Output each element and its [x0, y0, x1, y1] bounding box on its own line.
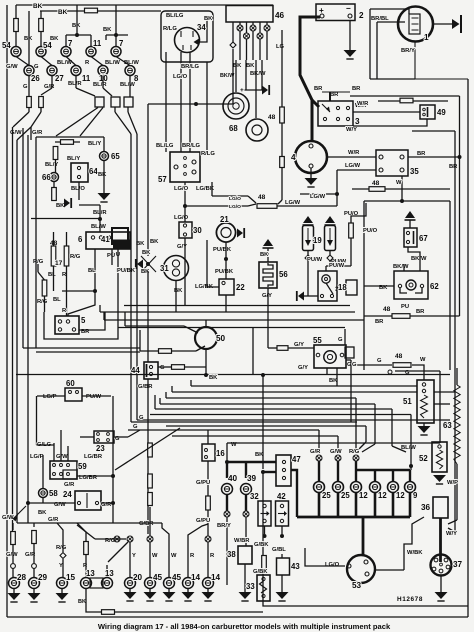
svg-text:48: 48: [258, 194, 266, 201]
svg-text:LG/W: LG/W: [310, 194, 326, 200]
svg-text:BR: BR: [314, 86, 323, 92]
svg-text:+: +: [240, 87, 244, 94]
svg-text:H12678: H12678: [397, 596, 423, 603]
svg-text:W: W: [420, 357, 426, 363]
svg-text:44: 44: [131, 366, 140, 375]
svg-text:68: 68: [229, 124, 238, 133]
svg-text:R/G: R/G: [70, 254, 81, 260]
svg-text:3: 3: [355, 117, 360, 126]
svg-text:PU/W: PU/W: [307, 257, 323, 263]
svg-text:G/Y: G/Y: [298, 365, 308, 371]
svg-text:42: 42: [277, 492, 286, 501]
svg-text:G/PU: G/PU: [196, 480, 210, 486]
svg-text:BR/BL: BR/BL: [371, 16, 389, 22]
svg-text:62: 62: [430, 282, 439, 291]
svg-text:56: 56: [279, 270, 288, 279]
svg-text:R/G: R/G: [37, 299, 48, 305]
svg-text:BK: BK: [209, 375, 218, 381]
svg-text:64: 64: [89, 167, 98, 176]
svg-text:G: G: [160, 365, 165, 371]
svg-text:BK: BK: [246, 63, 255, 69]
svg-text:67: 67: [419, 234, 428, 243]
svg-text:34: 34: [197, 23, 206, 32]
svg-text:G/W: G/W: [2, 515, 14, 521]
svg-text:PU/BK: PU/BK: [117, 268, 136, 274]
svg-text:W/Y: W/Y: [346, 127, 357, 133]
svg-text:24: 24: [63, 490, 72, 499]
svg-text:BK: BK: [33, 3, 43, 10]
svg-text:48: 48: [268, 114, 276, 121]
svg-text:G: G: [139, 415, 144, 421]
svg-text:BK/W: BK/W: [411, 256, 427, 262]
svg-text:G/R: G/R: [310, 449, 321, 455]
svg-text:57: 57: [158, 175, 167, 184]
svg-text:BL/O: BL/O: [71, 186, 85, 192]
svg-text:W: W: [396, 180, 402, 186]
svg-text:W/Y: W/Y: [446, 531, 457, 537]
svg-text:BK: BK: [204, 16, 213, 22]
svg-text:LG/P: LG/P: [30, 454, 44, 460]
svg-text:1: 1: [424, 33, 429, 42]
svg-text:5: 5: [81, 316, 86, 325]
svg-text:7: 7: [119, 39, 123, 48]
svg-text:66: 66: [42, 173, 51, 182]
svg-text:BK: BK: [142, 250, 151, 256]
svg-text:14: 14: [211, 573, 221, 582]
svg-text:52: 52: [419, 454, 428, 463]
svg-text:LG/O: LG/O: [174, 215, 189, 221]
svg-text:G/BL: G/BL: [272, 547, 286, 553]
svg-text:Y: Y: [132, 553, 136, 559]
svg-text:51: 51: [403, 397, 412, 406]
svg-text:G: G: [133, 424, 138, 430]
svg-text:54: 54: [2, 41, 11, 50]
svg-text:6: 6: [78, 235, 83, 244]
svg-text:40: 40: [228, 474, 238, 483]
svg-text:17: 17: [55, 260, 63, 267]
svg-text:G/R: G/R: [32, 130, 43, 136]
svg-text:LG: LG: [276, 44, 285, 50]
svg-text:LG/W: LG/W: [285, 200, 301, 206]
svg-text:50: 50: [216, 334, 226, 343]
svg-text:G: G: [34, 64, 39, 70]
svg-text:−: −: [346, 4, 351, 13]
svg-text:15: 15: [66, 573, 76, 582]
svg-text:41: 41: [101, 235, 110, 244]
svg-text:38: 38: [227, 550, 236, 559]
svg-text:G/Y: G/Y: [262, 293, 272, 299]
svg-text:BK: BK: [38, 510, 47, 516]
svg-text:BL/R: BL/R: [93, 82, 107, 88]
svg-text:21: 21: [220, 215, 229, 224]
svg-text:14: 14: [191, 573, 201, 582]
svg-text:16: 16: [216, 449, 225, 458]
svg-text:9: 9: [413, 491, 418, 500]
svg-text:LG/O: LG/O: [174, 186, 189, 192]
svg-text:G: G: [377, 358, 382, 364]
svg-text:G: G: [352, 362, 357, 368]
svg-text:G/BK: G/BK: [254, 542, 269, 548]
svg-text:BR: BR: [330, 92, 339, 98]
svg-text:46: 46: [275, 11, 285, 20]
svg-text:25: 25: [341, 491, 350, 500]
svg-text:BL/R: BL/R: [68, 81, 82, 87]
svg-text:BK: BK: [56, 203, 65, 209]
svg-text:BL/Y: BL/Y: [88, 141, 101, 147]
svg-text:G/W: G/W: [330, 449, 342, 455]
svg-text:35: 35: [410, 167, 419, 176]
svg-text:W/P: W/P: [447, 480, 458, 486]
svg-text:43: 43: [291, 562, 300, 571]
svg-text:LG/BR: LG/BR: [84, 454, 103, 460]
svg-text:27: 27: [55, 74, 64, 83]
svg-text:29: 29: [38, 573, 48, 582]
svg-text:LG/O: LG/O: [229, 204, 241, 210]
svg-text:LG/P: LG/P: [43, 394, 57, 400]
svg-text:W/R: W/R: [357, 101, 369, 107]
svg-text:R/G: R/G: [56, 545, 67, 551]
svg-text:58: 58: [49, 489, 58, 498]
svg-text:BK: BK: [78, 599, 86, 605]
svg-text:G/R: G/R: [48, 517, 59, 523]
svg-text:BL/Y: BL/Y: [45, 162, 58, 168]
svg-text:PU/W: PU/W: [329, 263, 345, 269]
svg-text:G: G: [338, 337, 343, 343]
svg-text:65: 65: [111, 152, 120, 161]
svg-text:7: 7: [68, 39, 72, 48]
svg-text:BR/LG: BR/LG: [182, 143, 201, 149]
svg-text:BK: BK: [141, 269, 150, 275]
svg-text:59: 59: [78, 462, 87, 471]
svg-text:PU/BK: PU/BK: [213, 247, 232, 253]
svg-text:BK: BK: [103, 27, 112, 33]
svg-text:G/Y: G/Y: [294, 342, 304, 348]
svg-text:BR: BR: [449, 164, 458, 170]
svg-text:11: 11: [82, 74, 91, 83]
svg-text:31: 31: [160, 264, 169, 273]
svg-text:PU/W: PU/W: [86, 394, 102, 400]
svg-text:G/W: G/W: [6, 64, 18, 70]
svg-text:BR: BR: [375, 319, 384, 325]
svg-text:12: 12: [359, 491, 368, 500]
svg-text:39: 39: [247, 474, 257, 483]
svg-text:53: 53: [352, 581, 362, 590]
svg-text:BL/LG: BL/LG: [156, 143, 174, 149]
svg-text:BL: BL: [53, 297, 61, 303]
svg-text:W: W: [152, 553, 158, 559]
svg-text:LG/O: LG/O: [173, 74, 188, 80]
svg-text:60: 60: [66, 379, 75, 388]
svg-text:BK: BK: [150, 239, 159, 245]
svg-text:4: 4: [291, 153, 296, 162]
svg-text:Wiring diagram 17 - all 1984-o: Wiring diagram 17 - all 1984-on carburet…: [98, 622, 391, 631]
svg-text:BK: BK: [98, 172, 107, 178]
svg-text:G/W: G/W: [56, 454, 68, 460]
svg-text:PU/O: PU/O: [363, 228, 378, 234]
svg-text:BK/W: BK/W: [393, 264, 409, 270]
svg-text:BL/W: BL/W: [105, 60, 120, 66]
svg-text:13: 13: [86, 569, 95, 578]
svg-text:28: 28: [17, 573, 27, 582]
svg-text:G/BR: G/BR: [138, 384, 153, 390]
svg-text:G/W: G/W: [10, 130, 22, 136]
svg-text:BR: BR: [352, 86, 361, 92]
svg-text:26: 26: [31, 74, 40, 83]
svg-text:W/R: W/R: [348, 150, 360, 156]
svg-text:48: 48: [395, 353, 403, 360]
svg-text:BL/Y: BL/Y: [67, 156, 80, 162]
svg-text:22: 22: [236, 283, 245, 292]
svg-text:37: 37: [453, 560, 463, 569]
svg-text:2: 2: [359, 11, 364, 20]
svg-text:R/LG: R/LG: [163, 26, 177, 32]
svg-text:25: 25: [322, 491, 331, 500]
svg-text:G/PU: G/PU: [196, 518, 210, 524]
svg-text:BR/Y: BR/Y: [217, 523, 231, 529]
svg-text:33: 33: [246, 582, 255, 591]
svg-text:G/BK: G/BK: [253, 569, 268, 575]
svg-text:BL: BL: [88, 268, 96, 274]
svg-text:30: 30: [193, 226, 202, 235]
svg-text:49: 49: [437, 108, 446, 117]
svg-text:BR/LG: BR/LG: [181, 64, 200, 70]
svg-text:BR: BR: [416, 309, 425, 315]
svg-text:18: 18: [338, 283, 347, 292]
svg-text:BL/W: BL/W: [91, 224, 106, 230]
svg-text:45: 45: [153, 573, 163, 582]
svg-text:LG/O: LG/O: [325, 562, 340, 568]
svg-text:12: 12: [378, 491, 387, 500]
svg-text:G/W: G/W: [6, 552, 18, 558]
svg-text:11: 11: [93, 39, 102, 48]
svg-text:W: W: [171, 553, 177, 559]
svg-text:BK: BK: [58, 9, 68, 16]
svg-text:BL/W: BL/W: [120, 82, 135, 88]
svg-text:13: 13: [105, 569, 114, 578]
svg-text:PU: PU: [401, 304, 409, 310]
svg-text:55: 55: [313, 336, 322, 345]
svg-text:BK/W: BK/W: [250, 71, 266, 77]
svg-text:48: 48: [372, 180, 380, 187]
svg-text:BK: BK: [260, 252, 269, 258]
svg-text:W/BR: W/BR: [234, 538, 250, 544]
svg-text:47: 47: [292, 455, 301, 464]
svg-text:BR: BR: [417, 151, 426, 157]
svg-text:20: 20: [133, 573, 143, 582]
svg-text:48: 48: [383, 306, 391, 313]
svg-text:54: 54: [43, 41, 52, 50]
svg-text:G/BR: G/BR: [139, 521, 154, 527]
svg-text:G/R: G/R: [64, 482, 75, 488]
svg-text:R/G: R/G: [349, 449, 360, 455]
svg-text:45: 45: [172, 573, 182, 582]
svg-text:36: 36: [421, 503, 431, 512]
svg-text:R/LG: R/LG: [201, 151, 215, 157]
svg-text:BL/W: BL/W: [401, 445, 416, 451]
svg-text:BL/LG: BL/LG: [166, 13, 184, 19]
svg-text:W/BK: W/BK: [407, 550, 423, 556]
svg-text:BR/Y: BR/Y: [401, 48, 415, 54]
svg-text:12: 12: [396, 491, 405, 500]
svg-text:63: 63: [443, 421, 452, 430]
svg-text:BK: BK: [50, 36, 59, 42]
svg-text:BL: BL: [48, 272, 56, 278]
svg-text:PU/BK: PU/BK: [215, 269, 234, 275]
svg-text:23: 23: [96, 444, 105, 453]
svg-text:LG/O: LG/O: [229, 196, 241, 202]
svg-text:PU: PU: [107, 253, 115, 259]
svg-text:LG/W: LG/W: [345, 163, 361, 169]
svg-text:G: G: [23, 84, 28, 90]
svg-text:19: 19: [313, 236, 322, 245]
svg-text:32: 32: [250, 492, 259, 501]
svg-text:BK: BK: [233, 63, 242, 69]
